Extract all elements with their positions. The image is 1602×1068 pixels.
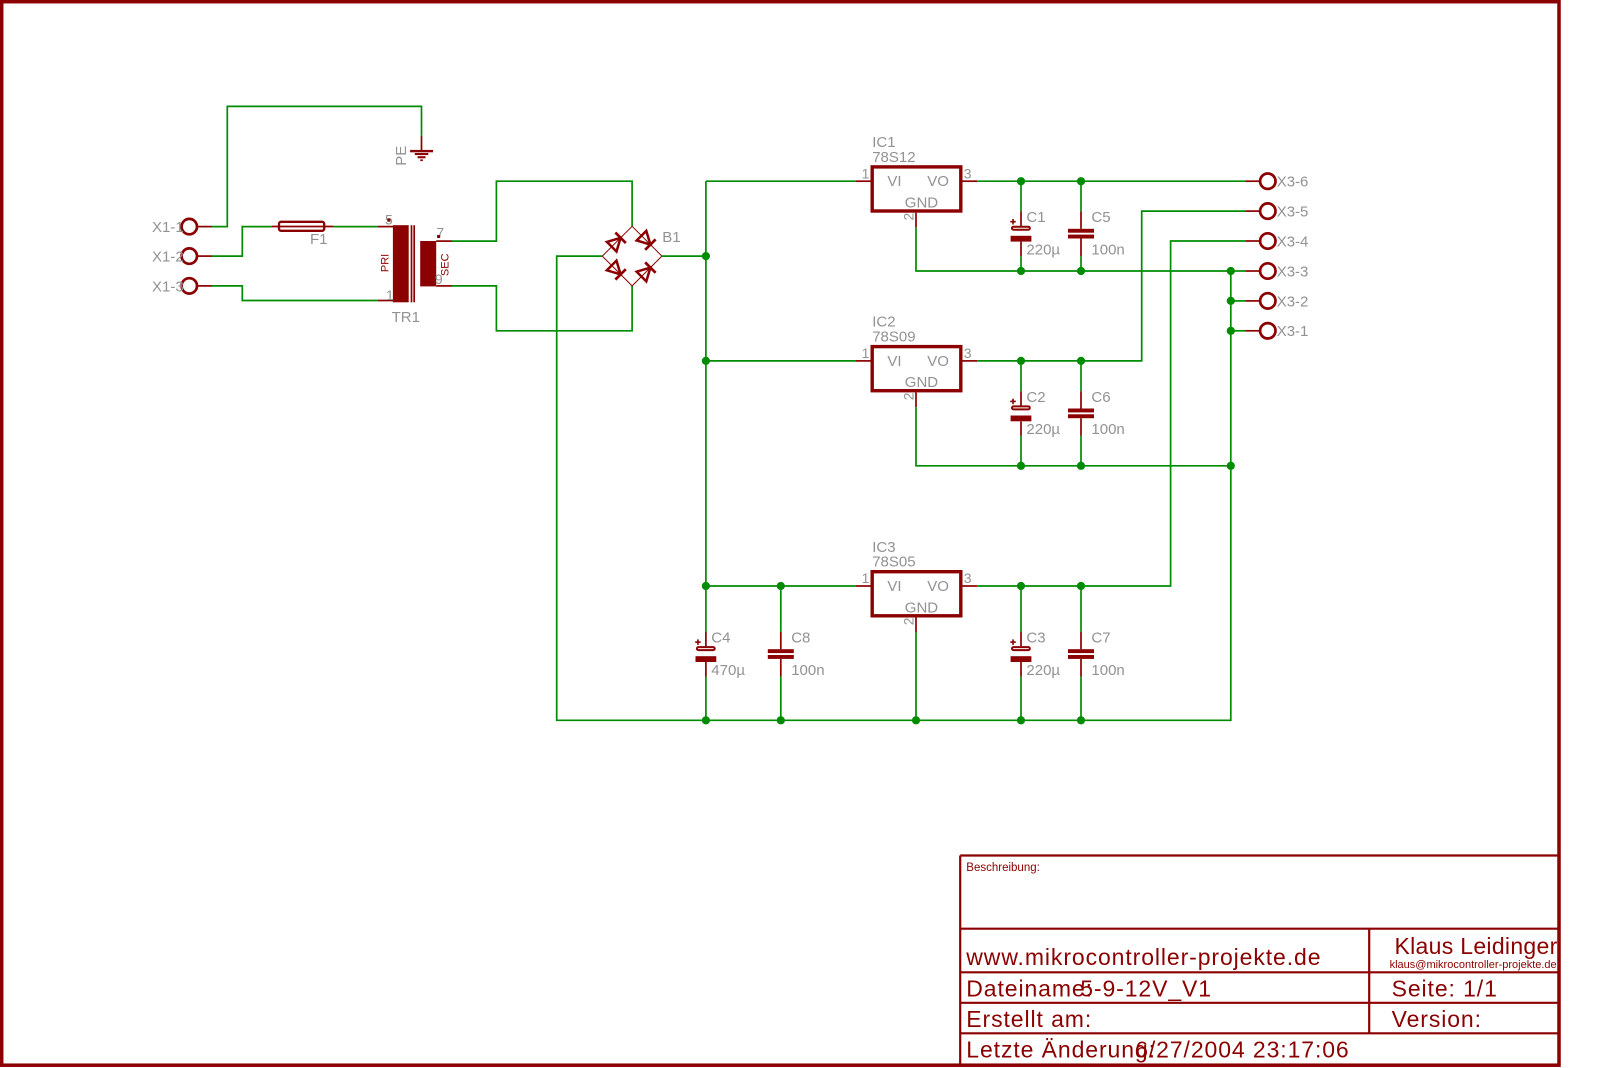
connector pin X3-3 [1245, 263, 1308, 280]
svg-text:Seite: 1/1: Seite: 1/1 [1392, 976, 1498, 1002]
voltage regulator IC3 78S05 [856, 539, 977, 632]
svg-text:Version:: Version: [1392, 1006, 1482, 1032]
svg-text:B1: B1 [662, 229, 680, 246]
svg-text:C8: C8 [791, 630, 810, 647]
svg-text:78S05: 78S05 [872, 554, 915, 571]
svg-text:PRI: PRI [379, 254, 391, 272]
svg-text:VI: VI [887, 173, 901, 190]
connector pin X3-2 [1245, 293, 1308, 310]
connector pin X1-1 [152, 219, 212, 236]
transformer TR1 [378, 212, 452, 327]
svg-text:2: 2 [901, 392, 917, 400]
wire TR1 pin 7 to B1 AC1 [452, 181, 632, 241]
connector pin X3-5 [1245, 203, 1308, 220]
svg-text:3: 3 [964, 345, 972, 361]
svg-text:5-9-12V_V1: 5-9-12V_V1 [1080, 976, 1212, 1002]
fuse F1 [272, 222, 334, 248]
svg-text:X3-1: X3-1 [1277, 323, 1309, 340]
svg-text:X3-2: X3-2 [1277, 293, 1309, 310]
connector pin X1-3 [152, 278, 212, 295]
capacitor C5 100n [1068, 181, 1125, 271]
svg-text:klaus@mikrocontroller-projekte: klaus@mikrocontroller-projekte.de [1390, 959, 1557, 971]
svg-text:Klaus Leidinger: Klaus Leidinger [1395, 933, 1558, 959]
svg-text:2: 2 [901, 617, 917, 625]
bridge rectifier B1 [602, 226, 680, 286]
ground PE [393, 136, 433, 166]
svg-text:X3-3: X3-3 [1277, 263, 1309, 280]
svg-text:VI: VI [887, 353, 901, 370]
junction input rail at B1 [702, 252, 710, 260]
svg-text:100n: 100n [1091, 241, 1124, 258]
junction bottom rail at C7 [1077, 716, 1085, 724]
svg-text:1: 1 [862, 570, 870, 586]
junction IC3 out at C3 [1017, 582, 1025, 590]
svg-text:GND: GND [905, 195, 939, 212]
svg-text:6/27/2004 23:17:06: 6/27/2004 23:17:06 [1135, 1037, 1349, 1063]
connector pin X3-1 [1245, 323, 1308, 340]
svg-text:7: 7 [436, 225, 444, 241]
capacitor C7 100n [1068, 586, 1125, 720]
capacitor C6 100n [1068, 361, 1125, 466]
junction IC2 out at C2 [1017, 357, 1025, 365]
wire X1-3 to TR1 pin 1 [212, 286, 378, 301]
svg-text:Letzte Änderung:: Letzte Änderung: [966, 1037, 1156, 1063]
capacitor C4 470u [695, 586, 745, 720]
svg-text:Erstellt am:: Erstellt am: [966, 1006, 1092, 1032]
svg-text:220µ: 220µ [1026, 421, 1060, 438]
junction IC2 gnd at C6 [1077, 462, 1085, 470]
svg-text:GND: GND [905, 374, 939, 391]
svg-text:X3-4: X3-4 [1277, 233, 1309, 250]
svg-text:C7: C7 [1091, 630, 1110, 647]
junction bottom rail at C4 [702, 716, 710, 724]
svg-text:100n: 100n [1091, 421, 1124, 438]
wire ground bus to X3-3 [1227, 267, 1245, 275]
wire X1-2 to F1 [212, 227, 272, 257]
junction bottom rail at C3 [1017, 716, 1025, 724]
connector pin X3-6 [1245, 174, 1308, 191]
capacitor C2 220u [1010, 361, 1060, 466]
junction IC1 out at C1 [1017, 177, 1025, 185]
svg-text:C3: C3 [1026, 630, 1045, 647]
svg-text:1: 1 [862, 165, 870, 181]
svg-text:www.mikrocontroller-projekte.d: www.mikrocontroller-projekte.de [965, 944, 1321, 970]
wire input rail to IC2 VI [706, 360, 856, 362]
junction bottom rail at C8 [777, 716, 785, 724]
svg-text:VI: VI [887, 578, 901, 595]
wire IC2 VO to X3-5 [977, 211, 1245, 361]
wire IC1 GND to ground bus [916, 227, 1231, 271]
wire IC3 GND to bottom rail [915, 632, 917, 720]
svg-text:PE: PE [393, 146, 410, 166]
wire input rail to IC3 VI [706, 585, 856, 587]
svg-text:100n: 100n [791, 662, 824, 679]
svg-text:C4: C4 [711, 630, 730, 647]
svg-text:VO: VO [927, 353, 949, 370]
svg-text:C1: C1 [1026, 209, 1045, 226]
junction IC1 out at C5 [1077, 177, 1085, 185]
connector pin X3-4 [1245, 233, 1308, 250]
svg-text:78S09: 78S09 [872, 329, 915, 346]
wire TR1 pin 9 to B1 AC2 [452, 286, 632, 331]
svg-text:VO: VO [927, 173, 949, 190]
svg-text:GND: GND [905, 599, 939, 616]
capacitor C8 100n [768, 586, 825, 720]
junction IC3 row at C8 [777, 582, 785, 590]
capacitor C1 220u [1010, 181, 1060, 271]
svg-text:3: 3 [964, 165, 972, 181]
junction bottom rail at IC3 GND [912, 716, 920, 724]
svg-text:X1-3: X1-3 [152, 278, 184, 295]
wire input rail [705, 181, 707, 586]
wire input rail to IC1 VI [706, 180, 856, 182]
svg-text:78S12: 78S12 [872, 149, 915, 166]
svg-text:X1-1: X1-1 [152, 219, 184, 236]
wire IC3 VO to X3-4 [977, 241, 1245, 586]
svg-text:1: 1 [386, 287, 394, 303]
junction input rail at IC2 [702, 357, 710, 365]
wire IC1 VO to X3-6 [977, 180, 1245, 182]
connector pin X1-2 [152, 248, 212, 265]
junction input rail at IC3 / C4 [702, 582, 710, 590]
junction IC2 gnd at C2 [1017, 462, 1025, 470]
svg-text:100n: 100n [1091, 662, 1124, 679]
wire B1 minus to ground bus [557, 256, 1231, 720]
svg-text:C5: C5 [1091, 209, 1110, 226]
svg-text:9: 9 [435, 271, 443, 287]
svg-text:220µ: 220µ [1026, 662, 1060, 679]
capacitor C3 220u [1010, 586, 1060, 720]
svg-text:Beschreibung:: Beschreibung: [966, 862, 1040, 874]
wire IC2 GND to ground bus [916, 407, 1231, 466]
wire ground bus to X3-1 [1227, 327, 1245, 335]
wire F1 to TR1 pin 5 [333, 226, 377, 228]
junction IC1 gnd at C1 [1017, 267, 1025, 275]
svg-text:Dateiname:: Dateiname: [966, 976, 1093, 1002]
svg-text:X1-2: X1-2 [152, 249, 184, 266]
svg-text:2: 2 [901, 213, 917, 221]
svg-text:X3-6: X3-6 [1277, 174, 1309, 191]
svg-text:470µ: 470µ [711, 662, 745, 679]
junction IC2 out at C6 [1077, 357, 1085, 365]
svg-text:C2: C2 [1026, 389, 1045, 406]
svg-text:X3-5: X3-5 [1277, 204, 1309, 221]
voltage regulator IC1 78S12 [856, 134, 977, 227]
svg-text:1: 1 [862, 345, 870, 361]
voltage regulator IC2 78S09 [856, 314, 977, 407]
junction ground bus at IC2 rail [1227, 462, 1235, 470]
svg-text:C6: C6 [1091, 389, 1110, 406]
junction IC3 out at C7 [1077, 582, 1085, 590]
svg-text:F1: F1 [310, 231, 328, 248]
wire ground bus to X3-2 [1227, 297, 1245, 305]
wire X1-1 to PE ground [212, 106, 422, 226]
svg-text:3: 3 [964, 570, 972, 586]
svg-text:VO: VO [927, 578, 949, 595]
junction IC1 gnd at C5 [1077, 267, 1085, 275]
wire B1 plus to input rail [662, 255, 706, 257]
svg-text:220µ: 220µ [1026, 241, 1060, 258]
svg-text:TR1: TR1 [392, 309, 420, 326]
